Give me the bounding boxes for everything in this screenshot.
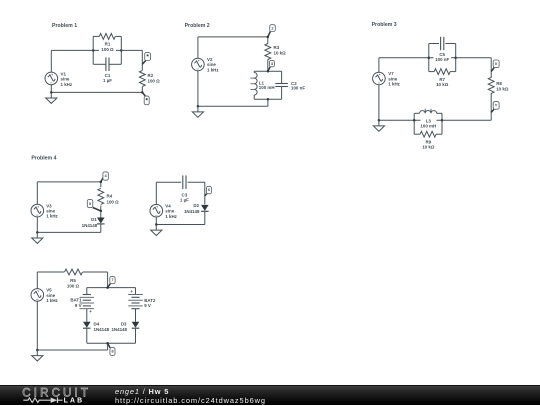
svg-text:Problem 2: Problem 2 <box>185 23 210 29</box>
svg-text:1 µF: 1 µF <box>180 198 189 203</box>
svg-text:10 kΩ: 10 kΩ <box>436 82 449 87</box>
svg-text:R3: R3 <box>274 45 280 50</box>
svg-text:D2: D2 <box>193 203 199 208</box>
svg-text:R1: R1 <box>105 42 111 47</box>
svg-text:1N4148: 1N4148 <box>184 209 200 214</box>
svg-text:BAT2: BAT2 <box>144 298 156 303</box>
svg-text:1 kHz: 1 kHz <box>165 214 177 219</box>
svg-text:BAT1: BAT1 <box>70 298 82 303</box>
svg-text:+: + <box>89 309 92 314</box>
svg-text:1 kHz: 1 kHz <box>61 82 73 87</box>
svg-text:9 V: 9 V <box>144 303 151 308</box>
svg-text:1 kHz: 1 kHz <box>207 67 219 72</box>
svg-text:1N4148: 1N4148 <box>111 327 127 332</box>
svg-text:+: + <box>130 289 133 294</box>
svg-text:LAB: LAB <box>64 398 85 405</box>
svg-text:D1: D1 <box>91 217 97 222</box>
svg-text:1N4148: 1N4148 <box>82 223 98 228</box>
svg-text:9 V: 9 V <box>75 303 82 308</box>
svg-text:Y: Y <box>495 103 498 108</box>
svg-text:1 kHz: 1 kHz <box>46 298 58 303</box>
svg-text:10 kΩ: 10 kΩ <box>274 51 287 56</box>
svg-text:100 Ω: 100 Ω <box>148 79 161 84</box>
svg-text:100 Ω: 100 Ω <box>67 283 80 288</box>
svg-text:Problem 3: Problem 3 <box>372 22 397 28</box>
svg-text:R4: R4 <box>107 193 113 198</box>
svg-text:7: 7 <box>111 277 113 282</box>
svg-text:10 kΩ: 10 kΩ <box>422 144 435 149</box>
svg-text:1 µF: 1 µF <box>103 78 112 83</box>
svg-text:1 kHz: 1 kHz <box>46 214 58 219</box>
svg-text:R8: R8 <box>496 81 502 86</box>
svg-text:100 nF: 100 nF <box>291 85 305 90</box>
svg-text:Problem 4: Problem 4 <box>31 156 56 162</box>
svg-text:Problem 1: Problem 1 <box>52 23 77 29</box>
svg-text:R2: R2 <box>148 73 154 78</box>
svg-text:100 nF: 100 nF <box>435 57 449 62</box>
svg-text:100 Ω: 100 Ω <box>107 199 120 204</box>
svg-text:100 mH: 100 mH <box>420 123 436 128</box>
svg-text:1 kHz: 1 kHz <box>388 82 400 87</box>
svg-text:10 kΩ: 10 kΩ <box>496 86 509 91</box>
svg-text:100 mH: 100 mH <box>259 85 275 90</box>
svg-text:X: X <box>495 61 498 66</box>
svg-text:D3: D3 <box>121 321 127 326</box>
svg-text:D4: D4 <box>94 322 100 327</box>
svg-text:100 Ω: 100 Ω <box>101 47 114 52</box>
svg-text:1N4148: 1N4148 <box>94 327 110 332</box>
